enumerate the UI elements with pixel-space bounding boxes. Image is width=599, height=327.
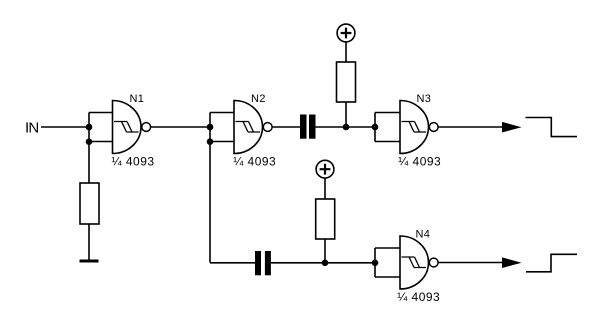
wire N3 input bracket	[375, 113, 400, 142]
wire N1 bottom input	[89, 141, 113, 143]
NAND gate N2 body	[234, 101, 263, 154]
arrowhead bottom output	[502, 257, 522, 268]
wire bottom branch to C2	[210, 262, 255, 264]
ground	[80, 260, 99, 263]
junction dot N4 input node	[372, 260, 379, 267]
capacitor C2	[255, 251, 271, 275]
resistor R1	[80, 183, 99, 224]
supply +V bottom	[316, 160, 334, 178]
svg-text:¼ 4093: ¼ 4093	[398, 154, 441, 168]
svg-text:IN: IN	[25, 120, 38, 137]
wire C1 to R2 node	[316, 126, 347, 128]
wire N1 output to N2 node	[151, 126, 210, 128]
wire N2 output to C1	[272, 126, 300, 128]
NAND gate N3 body	[400, 101, 429, 154]
junction dot C1 R2 node	[343, 124, 350, 131]
svg-text:¼ 4093: ¼ 4093	[112, 154, 155, 168]
wire N2 top input	[210, 112, 234, 114]
N2 output bubble	[263, 123, 272, 132]
wire input node vertical to R1	[88, 113, 90, 184]
wire IN to N1 input node	[41, 126, 89, 128]
NAND gate N4 body	[400, 236, 429, 289]
junction dot N2 input node	[207, 124, 214, 131]
wire R3 to node	[324, 239, 326, 263]
supply +V top	[337, 24, 355, 42]
N4 output bubble	[429, 258, 438, 267]
N1 schmitt hysteresis glyph	[114, 122, 139, 133]
wire +V to R2	[345, 42, 347, 62]
resistor R2	[337, 62, 356, 102]
wire R1 to ground	[88, 224, 90, 260]
wire +V to R3	[324, 178, 326, 199]
wire node to N4	[325, 262, 375, 264]
N4 schmitt hysteresis glyph	[402, 257, 427, 268]
junction dot IN node	[86, 124, 93, 131]
svg-text:N4: N4	[416, 228, 431, 240]
svg-text:¼ 4093: ¼ 4093	[233, 154, 276, 168]
svg-text:N2: N2	[251, 93, 266, 105]
junction dot C2 R3 node	[322, 260, 329, 267]
wire N3 output to arrow	[438, 126, 503, 128]
wire N4 output to arrow	[438, 262, 503, 264]
svg-text:N3: N3	[417, 93, 432, 105]
resistor R3	[316, 199, 335, 239]
wire N2 node vertical down to bottom branch	[209, 113, 211, 263]
wire R2 to node	[345, 102, 347, 127]
junction dot N2 lower input	[207, 138, 214, 145]
wire N1 top input	[89, 112, 113, 114]
waveform falling edge	[526, 118, 578, 137]
N3 output bubble	[429, 123, 438, 132]
op-amp style NAND gate N1 body	[113, 101, 142, 154]
wire N4 input bracket	[375, 248, 400, 277]
wire C2 to R3 node	[271, 262, 325, 264]
svg-text:N1: N1	[130, 93, 145, 105]
waveform rising edge	[526, 254, 577, 271]
N2 schmitt hysteresis glyph	[236, 122, 261, 133]
capacitor C1	[300, 115, 316, 139]
wire N2 bottom input	[210, 141, 234, 143]
N3 schmitt hysteresis glyph	[402, 122, 427, 133]
junction dot N3 input node	[372, 124, 379, 131]
arrowhead top output	[502, 122, 522, 133]
junction dot N1 lower input	[86, 138, 93, 145]
N1 output bubble	[142, 123, 151, 132]
svg-text:¼ 4093: ¼ 4093	[397, 290, 440, 304]
wire R2 node to N3 node	[346, 126, 375, 128]
